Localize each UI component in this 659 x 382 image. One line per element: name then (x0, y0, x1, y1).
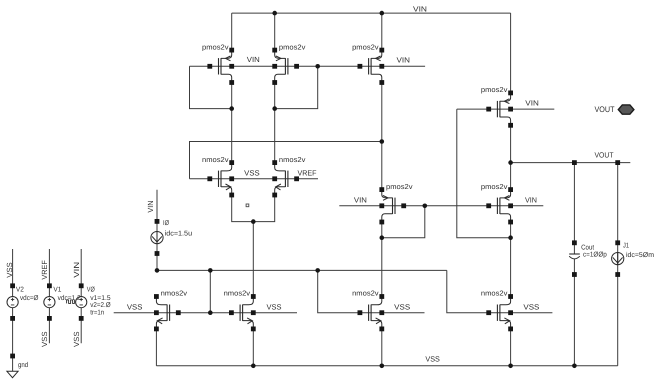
voltage source V0 (76, 283, 87, 320)
node VSS rail / Cout (572, 364, 577, 369)
wire VSS bottom rail (156, 365, 617, 367)
node pmos1 drain-gate (229, 106, 234, 111)
wire VIN top rail (232, 12, 511, 14)
node VSS rail / nmos4 source (508, 364, 513, 369)
wire tail down to bottom nmos2 drain (252, 222, 254, 297)
transistor M2 (pmos2v) (272, 42, 306, 85)
current source J1 (615, 160, 620, 277)
svg-text:gnd: gnd (18, 361, 28, 369)
transistor M1 (pmos2v) (202, 42, 234, 85)
wire column D: rail to pmos4 source (510, 13, 512, 93)
svg-text:v1=1.5: v1=1.5 (90, 295, 110, 302)
node pmos6 drain (508, 235, 513, 240)
wire bias drop to nmos3 gate (318, 270, 425, 312)
svg-text:pmos2v: pmos2v (202, 42, 229, 51)
wire column C: pmos3 drain down to pmos5 source (381, 83, 383, 190)
svg-text:V2: V2 (16, 286, 24, 293)
wire nmos1 source down to tail (232, 195, 254, 222)
wire pmos5 diode loop right-down to drain node (382, 206, 425, 238)
wire V1 column (48, 249, 50, 343)
wire column C: pmos5 drain down through bias rail to nmos3 drain (381, 222, 383, 297)
node bias rail / I0 (155, 268, 160, 273)
transistor M11 (nmos2v) (352, 289, 384, 332)
svg-text:nmos2v: nmos2v (224, 289, 251, 298)
svg-text:IØ: IØ (163, 219, 169, 227)
transistor M6 (nmos2v) (272, 155, 306, 198)
svg-text:nmos2v: nmos2v (352, 289, 379, 298)
svg-text:VSS: VSS (394, 302, 410, 311)
svg-text:vdc=Ø: vdc=Ø (20, 294, 39, 302)
svg-text:VIN: VIN (72, 262, 81, 278)
svg-text:VSS: VSS (244, 168, 260, 177)
transistor M9 (nmos2v) (154, 289, 188, 332)
voltage source V2 (7, 283, 18, 320)
svg-text:vdc=1.2: vdc=1.2 (58, 294, 81, 302)
wire I0 column (156, 190, 158, 271)
svg-text:VOUT: VOUT (595, 150, 614, 159)
export pad VOUT (618, 105, 634, 114)
wire pmos2 diode loop: gate right-down to drain (275, 66, 318, 108)
wire pmos2 drain to diode node (274, 83, 276, 109)
wire column A: rail to pmos1 source (231, 13, 233, 50)
node differential tail (251, 219, 256, 224)
node pmos2 drain-gate (272, 106, 277, 111)
wire diff-pair gate line (VSS / VREF) (190, 178, 319, 180)
wire row-1 gate net (pmos1-pmos3 gates) (190, 65, 426, 67)
node pmos5 drain (380, 235, 385, 240)
svg-text:tr=1n: tr=1n (90, 310, 104, 317)
wire column D: pmos6 drain down through to nmos4 drain (510, 222, 512, 297)
wire pmos1 diode loop: gate left-down to drain (190, 66, 232, 108)
wire bias drop to nmos gate net (left) (209, 270, 211, 312)
svg-text:J1: J1 (623, 243, 629, 250)
current source I0 (155, 219, 160, 256)
wire pmos4 drain down to VOUT node (510, 126, 512, 163)
wire bottom nmos1 source to VSS rail (155, 329, 157, 366)
svg-text:nmos2v: nmos2v (161, 289, 188, 298)
wire pmos4 gate to VOUT stub (457, 108, 555, 110)
wire column B: rail to pmos2 source (274, 13, 276, 50)
svg-text:VSS: VSS (5, 262, 14, 278)
transistor M8 (pmos2v) (481, 182, 513, 225)
svg-text:VREF: VREF (298, 168, 317, 177)
svg-text:VSS: VSS (425, 354, 440, 363)
node pmos5 gate loop T (423, 204, 428, 209)
transistor M5 (nmos2v) (202, 155, 234, 198)
svg-text:Cout: Cout (581, 244, 594, 251)
svg-text:pmos2v: pmos2v (279, 42, 306, 51)
wire bias drop to nmos4 gate (447, 270, 553, 312)
node VOUT (508, 160, 513, 165)
wire nmos1 gate loop up and right to column C (190, 142, 382, 179)
node VSS rail / nmos3 source (380, 364, 385, 369)
svg-text:V1: V1 (53, 286, 61, 293)
svg-text:VIN: VIN (525, 195, 537, 204)
svg-text:VIN: VIN (397, 55, 411, 64)
node bias rail drop left (208, 268, 213, 273)
svg-text:VIN: VIN (525, 99, 539, 108)
svg-text:VOUT: VOUT (595, 105, 615, 114)
node bottom gate line T (208, 310, 213, 315)
pulse waveform glyph of V0 (67, 300, 75, 304)
node row1 gate T (315, 64, 320, 69)
wire row-2 gate net (VIN) (339, 205, 543, 207)
wire column D: VOUT node down to pmos6 source (510, 163, 512, 190)
svg-text:v2=2.Ø: v2=2.Ø (90, 301, 111, 309)
svg-text:c=1ØØp: c=1ØØp (583, 251, 607, 259)
svg-text:nmos2v: nmos2v (202, 155, 229, 164)
svg-text:pmos2v: pmos2v (386, 182, 413, 191)
svg-text:idc=1.5u: idc=1.5u (165, 229, 193, 237)
wire bottom nmos2 source to VSS rail (252, 329, 254, 366)
wire V2 column (12, 249, 14, 371)
wire Cout column from VOUT (573, 163, 575, 254)
wire bottom nmos1-nmos2 gate line (VSS) (114, 312, 297, 314)
wire bottom nmos3 source to VSS rail (381, 329, 383, 366)
wire J1 column from VOUT (617, 163, 619, 366)
wire pmos2 drain node down to nmos2 drain (274, 109, 276, 163)
svg-text:VSS: VSS (40, 332, 49, 348)
transistor M10 (nmos2v) (224, 289, 256, 332)
svg-text:VSS: VSS (127, 302, 142, 311)
svg-text:pmos2v: pmos2v (481, 85, 508, 94)
node top rail / pmos3 source (380, 11, 385, 16)
svg-text:VIN: VIN (146, 201, 155, 213)
node top rail / pmos2 source (272, 11, 277, 16)
svg-text:pmos2v: pmos2v (481, 182, 508, 191)
wire bottom nmos4 source to VSS rail (510, 329, 512, 366)
node loop wire / column C (380, 139, 385, 144)
ground symbol gnd (7, 354, 18, 378)
wire Cout bottom to VSS rail (573, 259, 575, 366)
wire pmos1 drain node down to nmos1 drain (231, 109, 233, 163)
wire column C: rail to pmos3 source (381, 13, 383, 50)
svg-text:VSS: VSS (267, 302, 282, 311)
wire V0 column (80, 249, 82, 343)
node bias rail drop middle (315, 268, 320, 273)
wire VOUT horizontal (511, 162, 631, 164)
capacitor Cout (569, 160, 580, 277)
svg-text:nmos2v: nmos2v (279, 155, 306, 164)
svg-text:pmos2v: pmos2v (352, 42, 379, 51)
svg-text:VREF: VREF (40, 260, 49, 280)
transistor M3 (pmos2v) (352, 42, 384, 85)
voltage source V1 (44, 283, 55, 320)
transistor M4 (pmos2v) (481, 85, 513, 128)
transistor M7 (pmos2v) (379, 182, 413, 225)
cell center marker (246, 204, 249, 207)
node VSS rail / nmos2 source (251, 364, 256, 369)
transistor M12 (nmos2v) (481, 289, 513, 332)
svg-text:VIN: VIN (413, 4, 427, 13)
wire pmos4 gate loop: left and down to pmos6 drain (457, 109, 511, 238)
svg-text:VSS: VSS (523, 302, 539, 311)
svg-text:VØ: VØ (87, 285, 95, 293)
svg-text:VIN: VIN (354, 195, 367, 204)
wire bias rail from I0 (157, 269, 447, 271)
svg-text:VIN: VIN (247, 55, 260, 64)
svg-text:nmos2v: nmos2v (481, 289, 508, 298)
wire pmos1 drain to diode node (231, 83, 233, 109)
svg-text:idc=5Øm: idc=5Øm (626, 251, 654, 259)
svg-text:VSS: VSS (72, 332, 81, 348)
wire nmos2 source down to tail (253, 195, 274, 222)
